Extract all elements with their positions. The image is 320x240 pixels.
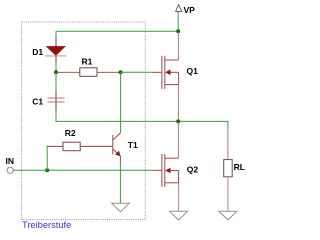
svg-text:Treiberstufe: Treiberstufe — [22, 220, 71, 230]
svg-text:R2: R2 — [65, 128, 76, 138]
pin D1 cathode — [55, 56, 57, 63]
pin R1 right lead — [97, 71, 121, 73]
pin C1 top — [55, 92, 57, 102]
node A junction dot VP rail / Q1 drain — [176, 29, 180, 33]
wire C1 to out rail corner — [56, 110, 178, 121]
svg-text:VP: VP — [184, 5, 196, 15]
resistor RL — [224, 160, 233, 177]
svg-text:Q2: Q2 — [187, 165, 199, 175]
pin Q2 gate lead — [152, 169, 161, 171]
capacitor C1 — [48, 98, 65, 102]
svg-text:T1: T1 — [128, 140, 138, 150]
wire C1 top lead — [55, 72, 57, 92]
svg-text:C1: C1 — [32, 96, 43, 106]
resistor R1 — [80, 68, 97, 77]
arrow Q1 body — [165, 70, 170, 76]
ground G1 (T1 emitter) — [112, 203, 130, 212]
pin Q1 source down — [177, 85, 179, 121]
arrow T1 emitter — [115, 151, 121, 157]
pin Q1 drain to VP — [177, 32, 179, 60]
node B junction dot D1/C1/R1 — [54, 70, 58, 74]
transistor Q1 (p-channel MOSFET) — [162, 56, 179, 89]
pin R2 left lead — [47, 145, 63, 147]
wire IN row — [13, 169, 152, 171]
wire VP vertical (triangle to dot) — [177, 12, 179, 32]
ground G3 (RL) — [219, 211, 237, 220]
wire gate row to Q1 — [121, 71, 152, 73]
transistor T1 (NPN) — [113, 133, 121, 156]
wire D1 to node — [55, 63, 57, 72]
pin C1 bottom — [55, 102, 57, 110]
transistor Q2 (n-channel MOSFET) — [162, 154, 179, 187]
svg-text:RL: RL — [234, 162, 245, 172]
svg-text:R1: R1 — [82, 57, 93, 67]
port IN pad circle — [7, 167, 13, 173]
pin Q2 source down to ground — [178, 183, 180, 212]
node E junction dot IN / R2 — [45, 168, 49, 172]
pin RL bottom lead to ground — [227, 177, 229, 211]
arrow Q2 body — [165, 168, 170, 174]
wire VP rail top (y=31.3 from x=56 to x=178) — [56, 30, 178, 32]
resistor R2 — [63, 142, 80, 151]
diode D1 — [45, 46, 66, 56]
pin Q2 drain up to out rail — [177, 122, 179, 158]
power symbol VP — [176, 5, 182, 12]
svg-text:D1: D1 — [32, 47, 43, 57]
wire D1 top lead down from rail — [55, 31, 57, 38]
svg-text:Q1: Q1 — [187, 66, 199, 76]
pin R1 left lead — [56, 71, 80, 73]
ground G2 (Q2 source) — [170, 211, 188, 220]
wire T1 emitter down to ground — [119, 156, 121, 162]
wire T1 collector riser — [120, 72, 122, 132]
pin RL top lead — [227, 128, 229, 160]
pin Q1 gate lead — [152, 71, 161, 73]
pin D1 anode — [55, 38, 57, 47]
dashed group box Treiberstufe — [22, 22, 146, 220]
pin R2 right lead to T1 base — [80, 145, 112, 147]
node C junction dot R1/T1 collector/Q1 gate — [119, 70, 123, 74]
svg-text:IN: IN — [6, 156, 15, 166]
wire R2 riser — [46, 146, 48, 170]
node D junction dot out rail / Q1 source / Q2 drain — [176, 119, 180, 123]
wire out rail right segment to RL — [178, 121, 228, 128]
